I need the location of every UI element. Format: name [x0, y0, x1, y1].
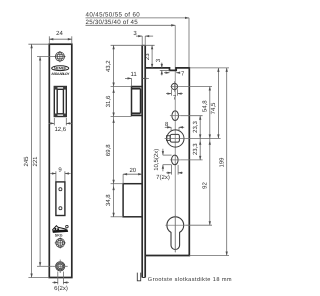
lock case outline with top notch	[145, 68, 189, 256]
faceplate top cap	[142, 44, 145, 46]
svg-text:7: 7	[181, 71, 185, 78]
dimension 221	[37, 57, 55, 267]
deadbolt side view	[123, 184, 142, 217]
svg-text:69,8: 69,8	[105, 144, 112, 156]
latch bolt side view	[132, 87, 143, 116]
bottom screw hole	[55, 237, 66, 248]
dimension 31,6	[112, 89, 114, 93]
left dim column extension lines	[111, 45, 132, 217]
svg-text:11: 11	[130, 71, 137, 78]
cylinder fixing hole front	[56, 262, 65, 271]
oval hole lower	[172, 155, 179, 165]
svg-text:20: 20	[129, 167, 136, 174]
svg-text:92: 92	[201, 182, 208, 189]
svg-text:ASSA ABLOY: ASSA ABLOY	[51, 72, 70, 76]
dimension 43,2	[112, 45, 114, 49]
svg-text:12,6: 12,6	[54, 126, 66, 133]
faceplate bottom cap	[142, 277, 145, 279]
svg-text:54,8: 54,8	[201, 100, 208, 112]
dimension 92	[209, 141, 211, 145]
follower hole	[167, 130, 184, 147]
svg-text:43,2: 43,2	[105, 60, 112, 72]
dimension 7 notch width	[164, 72, 179, 74]
NEMEF oval logo	[52, 66, 69, 71]
svg-text:7(2x): 7(2x)	[156, 174, 170, 181]
dimension 7(2x) oval width	[166, 165, 183, 175]
faceplate outline	[49, 44, 72, 277]
dimension 69,8	[112, 119, 114, 123]
dimension 34,8	[112, 186, 114, 190]
svg-text:10,5(2x): 10,5(2x)	[153, 149, 160, 171]
svg-text:Grootste slotkastdikte 18 mm: Grootste slotkastdikte 18 mm	[148, 276, 232, 283]
svg-text:74,5: 74,5	[210, 102, 217, 114]
svg-text:SKG: SKG	[55, 233, 63, 237]
strike box cutout	[56, 182, 65, 216]
svg-text:23,3: 23,3	[192, 143, 199, 155]
dimension 23 plate top to case top	[111, 44, 155, 46]
underline / dim line to axis	[86, 24, 176, 26]
svg-text:24: 24	[56, 30, 63, 37]
faceplate edge-on back line	[144, 45, 146, 277]
dimension 23,3 upper	[199, 116, 201, 160]
centre axis line	[174, 25, 176, 252]
svg-text:34,8: 34,8	[105, 194, 112, 206]
follower side slot	[167, 136, 171, 141]
svg-text:9: 9	[58, 167, 62, 174]
svg-text:199: 199	[219, 157, 226, 168]
svg-text:245: 245	[23, 156, 30, 167]
svg-text:6(2x): 6(2x)	[54, 285, 68, 292]
svg-text:NEMEF: NEMEF	[54, 67, 67, 71]
underline / dim line to case back	[86, 17, 190, 19]
right side extension lines	[181, 68, 230, 256]
svg-text:23,3: 23,3	[192, 121, 199, 133]
faceplate edge-on front line	[141, 45, 143, 277]
dimension 7 pin hole	[166, 89, 183, 95]
dimension 199	[226, 68, 228, 256]
svg-text:7: 7	[173, 94, 177, 101]
latch bolt front view	[54, 87, 66, 117]
svg-text:23: 23	[144, 53, 151, 60]
dimension 23,3 lower	[199, 141, 201, 145]
dimension 74,5	[217, 68, 219, 138]
dimension 12,6 latch width	[49, 118, 72, 125]
guide pin hole	[171, 83, 177, 89]
svg-text:3: 3	[155, 58, 162, 62]
svg-text:221: 221	[32, 156, 39, 167]
svg-text:31,6: 31,6	[105, 95, 112, 107]
top screw hole	[54, 51, 65, 62]
euro cylinder hole	[167, 217, 184, 250]
follower square 8mm	[170, 134, 179, 142]
footnote icon	[137, 273, 140, 281]
dimension 24 plate width	[49, 36, 72, 43]
SKG logo	[52, 225, 68, 233]
oval hole upper	[172, 111, 179, 121]
strike box hole upper	[59, 188, 62, 191]
dimension 54,8	[209, 87, 211, 226]
dimension 245 plate height	[28, 44, 49, 277]
strike box hole lower	[59, 207, 62, 210]
dimension 6(2x)	[52, 272, 69, 285]
